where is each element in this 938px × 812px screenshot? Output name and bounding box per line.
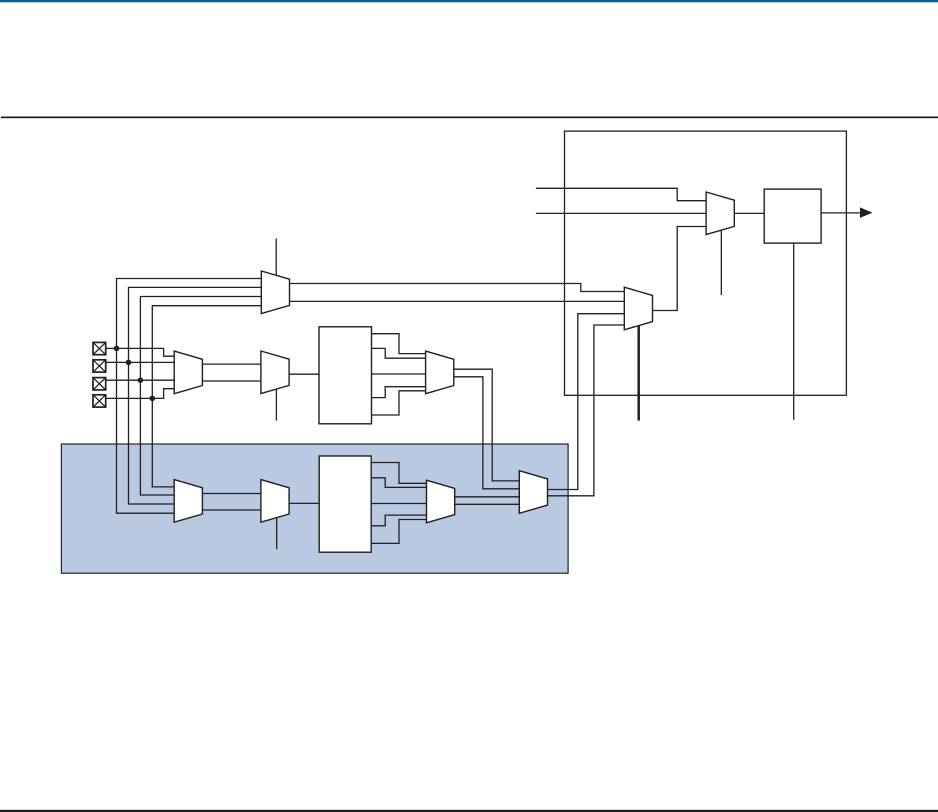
wire: column c3 U1.in3 to U7.in2	[140, 297, 261, 496]
wire: U3 select line	[275, 389, 277, 420]
box B1	[764, 189, 821, 243]
wire: pin row 1 to U2 input 1	[106, 348, 175, 356]
wire: B1 output to arrow	[821, 212, 861, 214]
junction dot row3/c3	[138, 377, 144, 383]
wire: U6 output up to U10 input 3	[653, 227, 707, 311]
wire: U10 select line	[720, 230, 722, 295]
wire: U7 output upper to U8	[202, 493, 261, 495]
block F2	[319, 456, 371, 552]
wire: column c4 U1.in4 to U7.in1	[152, 306, 261, 487]
arrowhead	[860, 207, 872, 218]
wire: U2 output lower to U3	[202, 380, 261, 382]
wire: F2 out4 to U9	[371, 515, 426, 526]
block F1	[319, 327, 372, 424]
wire: U1 select line	[275, 239, 277, 276]
mux U4	[426, 351, 454, 394]
wire: pin row 2 to U2 input 2	[106, 361, 175, 363]
wire: pin row 4 to U2 input 4	[106, 389, 175, 399]
wire: U1 output upper to U6 input 1	[290, 284, 625, 292]
wire: input line 1 to U10	[536, 188, 706, 200]
wire: F1 out3 to U4	[372, 373, 426, 375]
wire: U5 output upper up to U6 input 3	[548, 314, 625, 490]
block boundary rectangle	[565, 131, 847, 395]
mux U1	[261, 271, 289, 314]
shaded region (low-power domain)	[61, 444, 568, 573]
mux U10	[706, 192, 734, 235]
wire: U7 output lower to U8	[202, 509, 261, 511]
wire: F1 out1 to U4	[372, 334, 426, 354]
junction dot row4/c4	[150, 396, 156, 402]
junction dot row2/c2	[126, 360, 132, 366]
wire: U9 output lower to U5 input 4	[455, 503, 520, 505]
wire: F2 out2 to U9	[371, 478, 426, 488]
mux U6	[624, 287, 652, 330]
pin P4	[93, 395, 106, 407]
header blue bar	[0, 0, 938, 2]
wire: U3 output to block F1	[289, 373, 319, 375]
wire: B1 feedback line down	[793, 243, 795, 420]
wire: input line 2 to U10	[536, 212, 706, 214]
mux U3	[261, 351, 289, 394]
mux U9	[427, 480, 455, 523]
mux U8	[261, 480, 289, 523]
wire: U8 output to block F2	[289, 502, 319, 504]
wire: F2 out5 to U9	[371, 520, 426, 544]
wire: U2 output upper to U3	[202, 363, 261, 365]
footer rule	[0, 810, 938, 812]
wire: U1 output lower to U6 input 2	[290, 300, 625, 302]
mux U5	[519, 471, 547, 514]
wire: F1 out5 to U4	[372, 391, 426, 415]
wire: F2 out1 to U9	[371, 463, 426, 484]
pin P3	[93, 378, 106, 390]
wire: U6 select line (thick)	[637, 326, 640, 421]
mux U2	[174, 351, 202, 394]
wire: U4 output upper down to U5 input 1	[454, 369, 520, 481]
wire: column c1 U1.in1 to U7.in4	[117, 279, 262, 514]
header rule	[1, 117, 938, 119]
wire: U8 select line	[276, 518, 278, 550]
wire: F1 out4 to U4	[372, 387, 426, 398]
wire: F1 out2 to U4	[372, 348, 426, 358]
wire: F2 out3 to U9	[371, 503, 426, 505]
wire: U5 output lower up to U6 input 4	[548, 325, 625, 496]
mux U7	[174, 480, 202, 523]
pin P2	[93, 360, 106, 372]
pin P1	[93, 342, 106, 354]
junction dot row1/c1	[114, 346, 120, 352]
wire: pin row 3 to U2 input 3	[106, 379, 175, 381]
wire: U10 output to box B1	[734, 212, 764, 214]
wire: column c2 U1.in2 to U7.in3	[129, 287, 262, 504]
wire: U4 output lower down to U5 input 2	[454, 377, 520, 489]
wire: U9 output upper to U5 input 3	[455, 496, 520, 498]
